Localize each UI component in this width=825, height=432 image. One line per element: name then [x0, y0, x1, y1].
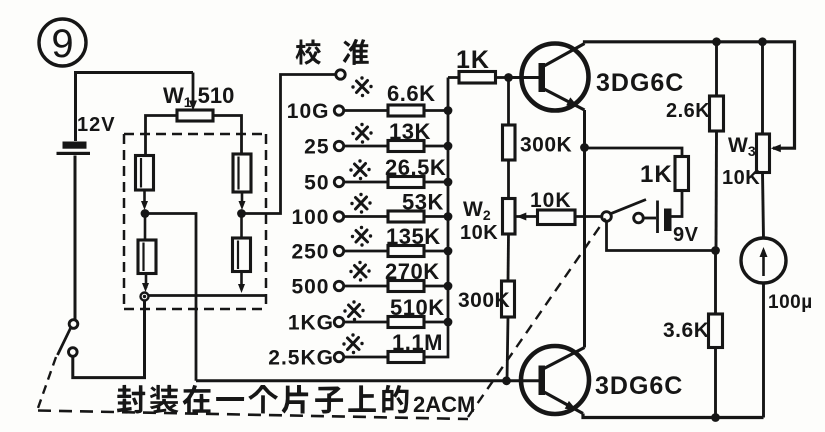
resistor 1K emitter body [675, 157, 689, 191]
wire + arrow upper-right to node [241, 192, 244, 206]
resistor 300K upper body [503, 125, 516, 160]
sensor element upper-left [136, 156, 154, 191]
reference mark for 1KG [343, 300, 364, 321]
reference mark for 25 [351, 123, 372, 144]
svg-text:100µ: 100µ [768, 292, 813, 313]
wire W3 to meter [763, 173, 764, 239]
wire T1 base to 300K [507, 78, 510, 126]
node top rail 2.6K [712, 37, 721, 46]
svg-text:W3: W3 [728, 134, 756, 159]
wire terminal 250 to resistor [344, 250, 388, 253]
wire 2.6K to mid node [715, 131, 718, 251]
node base rail W2-chain [502, 376, 511, 385]
reference mark for 500 [349, 261, 370, 282]
terminal calibration [336, 70, 345, 79]
svg-text:6.6K: 6.6K [387, 81, 435, 106]
switch S1 lever [58, 328, 71, 355]
wire resistor 26.5K to bus [424, 181, 448, 184]
resistor 300K lower body [502, 281, 515, 317]
terminal range 2.5KG [334, 352, 343, 361]
switch S1 pole [69, 320, 78, 329]
node bridge bottom junction [141, 293, 149, 301]
wire bridge right output to calibration terminal [245, 75, 336, 214]
terminal range 1KG [334, 317, 343, 326]
wire top-left rail [76, 73, 194, 142]
wire rail to W3 [761, 42, 764, 134]
resistor 6.6K body [388, 105, 424, 116]
node bus row 10G [444, 106, 453, 115]
svg-text:9V: 9V [673, 224, 699, 246]
svg-text:3DG6C: 3DG6C [595, 372, 683, 400]
svg-text:100: 100 [291, 206, 329, 229]
wire 3.6K to bottom rail [714, 348, 717, 418]
terminal range 50 [334, 177, 343, 186]
wire + arrow lower-left to bottom node [145, 274, 148, 289]
svg-text:W2: W2 [463, 198, 491, 223]
svg-text:2ACM: 2ACM [413, 392, 475, 417]
wire mid node to 3.6K [714, 251, 717, 315]
wire bus to 1K [448, 76, 459, 79]
node bus row 50 [444, 178, 453, 187]
battery B2 9V plates [656, 201, 659, 234]
svg-text:2.5KG: 2.5KG [268, 347, 334, 370]
svg-text:12V: 12V [77, 114, 116, 136]
switch S2 pole [602, 212, 612, 222]
svg-text:300K: 300K [520, 134, 572, 157]
svg-text:500: 500 [291, 276, 329, 299]
wire switch to bridge bottom [73, 301, 145, 378]
potentiometer W1 body [177, 110, 213, 121]
svg-text:9: 9 [51, 22, 73, 66]
svg-text:1K: 1K [456, 46, 490, 74]
resistor 53K body [388, 211, 424, 222]
transistor Q2 emitter [544, 392, 583, 414]
wire terminal 100 to resistor [344, 215, 388, 218]
wire W1 left to bridge [146, 116, 178, 156]
wire 9V to 1K [672, 191, 683, 217]
dashed link switch S2 [468, 219, 606, 418]
resistor 135K body [388, 246, 424, 257]
wire resistor 13K to bus [424, 145, 448, 148]
transistor Q1 emitter [544, 89, 585, 110]
reference mark for 50 [349, 159, 370, 180]
reference mark for 250 [351, 226, 372, 247]
wire terminal 25 to resistor [344, 145, 388, 148]
wire rail to 2.6K [715, 42, 718, 96]
svg-text:2.6K: 2.6K [666, 100, 710, 122]
terminal range 100 [334, 212, 343, 221]
resistor 1K body [459, 72, 496, 84]
wire top rail [585, 42, 795, 148]
potentiometer W3 body [757, 134, 770, 173]
transistor Q2 collector [544, 348, 585, 369]
svg-text:10K: 10K [722, 167, 760, 189]
wire W2 to 300K lower [507, 234, 510, 281]
transistor Q1 base bar [539, 63, 546, 92]
wire resistor 1.1M up to bus [424, 322, 448, 357]
node bridge right output [237, 209, 246, 218]
reference mark for 10G [351, 76, 372, 97]
reference mark for 2.5KG [342, 333, 363, 354]
wire terminal 10G to resistor [344, 109, 388, 112]
wire left node to lower-left sensor [144, 218, 147, 241]
wire battery to switch [74, 156, 77, 320]
wire 300K to W2 [507, 160, 510, 199]
svg-text:250: 250 [291, 241, 329, 264]
transistor Q2 base bar [539, 366, 546, 396]
resistor 2.6K body [710, 96, 724, 131]
wire 300K lower to bottom [507, 317, 508, 381]
node bus row 250 [444, 247, 453, 256]
node T1 emitter [580, 143, 589, 152]
wire 1K to emitter node [585, 148, 683, 157]
terminal range 500 [334, 281, 343, 290]
wire 1K to T1 base [496, 76, 509, 79]
svg-text:1K: 1K [640, 161, 673, 188]
terminal range 250 [334, 246, 343, 255]
svg-text:W1 510: W1 510 [163, 83, 234, 110]
wire T1 emitter to T2 collector [583, 110, 586, 348]
sensor element lower-left [138, 240, 156, 274]
node bus row 500 [444, 282, 453, 291]
arrow W2 wiper [516, 213, 526, 221]
svg-text:50: 50 [304, 172, 329, 195]
resistor 510K body [388, 317, 424, 328]
resistor 270K body [388, 281, 424, 292]
transistor Q2 3DG6C circle [521, 346, 589, 414]
sensor element lower-right [233, 238, 251, 272]
wire right node to lower-right sensor [240, 218, 243, 239]
wire terminal 50 to resistor [344, 181, 388, 184]
switch S2 throw [634, 213, 644, 223]
wire + arrow lower-right to bottom wire [240, 272, 243, 289]
wire W1 right to bridge [213, 116, 242, 155]
transistor Q1 3DG6C circle [522, 44, 589, 111]
svg-text:10K: 10K [460, 222, 498, 244]
wire + arrow upper-left to node [143, 190, 146, 206]
svg-text:25: 25 [304, 136, 329, 159]
transistor Q1 collector [544, 44, 585, 67]
dashed link switch S1 [38, 357, 56, 408]
wire resistor 510K to bus [424, 321, 448, 324]
label packaged-on-one-chip 2ACM [117, 385, 145, 414]
terminal range 25 [334, 141, 343, 150]
switch S2 lever [611, 200, 646, 214]
node bottom rail 3.6K [711, 413, 720, 422]
resistor 3.6K body [709, 314, 723, 348]
wire bridge left output tap [149, 214, 196, 381]
resistor 13K body [388, 141, 424, 152]
node bridge left output [141, 209, 150, 218]
wire bottom base rail [196, 379, 539, 382]
svg-text:10G: 10G [287, 100, 330, 123]
potentiometer W1 wiper [192, 73, 195, 106]
figure number 9 badge [39, 19, 86, 66]
sensor element upper-right [233, 154, 251, 192]
wire meter to bottom rail [762, 283, 765, 418]
wire resistor 270K to bus [424, 285, 448, 288]
svg-text:3DG6C: 3DG6C [596, 69, 684, 97]
node bus row 1KG [444, 318, 453, 327]
node bus row 25 [444, 142, 453, 151]
wire throw to 9V battery [643, 217, 656, 220]
switch S1 throw [69, 348, 78, 357]
svg-text:3.6K: 3.6K [663, 319, 709, 342]
wire terminal 1KG to resistor [344, 321, 388, 324]
dashed enclosure of sensor bridge [124, 133, 266, 136]
terminal range 10G [334, 106, 343, 115]
wire terminal 2.5KG to resistor [344, 356, 388, 359]
wire bottom rail [583, 414, 764, 418]
node bus row 100 [444, 212, 453, 221]
resistor 26.5K body [388, 177, 424, 188]
meter M1 100uA [741, 238, 786, 283]
wire resistor 6.6K to bus [424, 109, 448, 112]
arrow W3 wiper [771, 144, 781, 152]
node T1 base [504, 73, 513, 82]
resistor 10K body [538, 210, 576, 225]
dashed callout bottom [38, 411, 468, 420]
wire wiper to 10K [516, 215, 537, 218]
reference mark for 100 [350, 193, 371, 214]
wire summing bus [447, 78, 450, 323]
resistor 1.1M body [388, 352, 424, 363]
label calibration (jiao zhun) [296, 39, 321, 64]
wire switch S2 to mid node [607, 221, 716, 250]
potentiometer W2 body [503, 199, 516, 235]
wire resistor 53K to bus [424, 215, 448, 218]
transistor Q1 base lead [509, 76, 540, 79]
wire 10K to switch [575, 215, 602, 218]
wire bridge bottom node [149, 294, 266, 297]
battery B1 12V [63, 142, 87, 149]
wire terminal 500 to resistor [344, 285, 388, 288]
node mid right [711, 246, 720, 255]
svg-text:1KG: 1KG [288, 312, 334, 335]
node top rail W3 [758, 37, 767, 46]
wire resistor 135K to bus [424, 250, 448, 253]
